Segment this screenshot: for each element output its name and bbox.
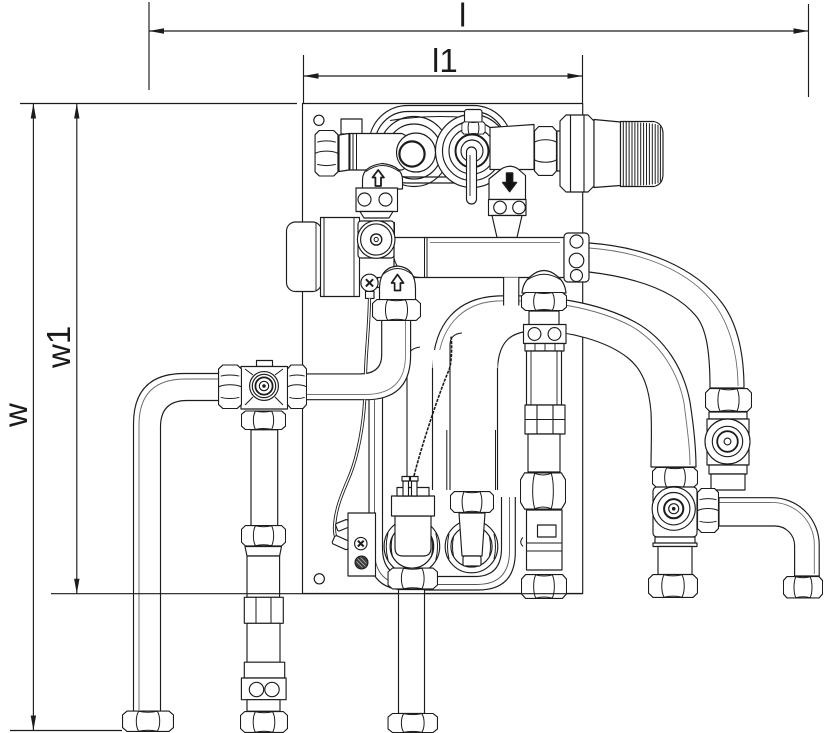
inlet bracket tab xyxy=(341,119,362,134)
bottom hex B xyxy=(240,712,287,733)
inlet cone adapter xyxy=(339,134,349,172)
pipe valve to safety valve xyxy=(490,125,534,170)
ball valve lever xyxy=(467,147,477,204)
center bottom pipe xyxy=(399,590,425,714)
riser bottom hex xyxy=(783,577,822,598)
svg-text:w1: w1 xyxy=(40,326,77,369)
pump to pipe fillet xyxy=(394,258,420,278)
plate screw bottom-left xyxy=(314,574,324,584)
right column barrel xyxy=(527,351,562,405)
dimension l xyxy=(149,0,809,97)
dimension w1 xyxy=(40,104,80,594)
right column dome elbow xyxy=(522,271,566,294)
U loop pipe xyxy=(369,396,515,590)
mid union hex xyxy=(241,525,285,546)
left valve down pipe xyxy=(251,430,278,526)
lower right valve outlet pipe xyxy=(658,547,692,575)
middle wide column xyxy=(407,333,498,490)
left 3way valve rings xyxy=(250,372,279,401)
reducer cone xyxy=(245,547,282,557)
elbow pump to valve xyxy=(307,321,411,400)
right column big hex xyxy=(520,473,565,509)
ball valve bonnet cap xyxy=(465,110,483,124)
block above flange xyxy=(244,662,284,678)
left elbow port rings xyxy=(379,117,449,187)
safety valve union hex xyxy=(535,127,557,176)
plug union hex xyxy=(450,492,493,513)
safety valve knurled knob xyxy=(621,122,664,187)
left elbow mouth xyxy=(397,133,436,172)
inlet cylinder seams xyxy=(350,134,357,171)
right column lower neck xyxy=(528,434,560,472)
top loop housing xyxy=(369,106,512,184)
pipe below union xyxy=(247,623,280,662)
pump mount plate xyxy=(358,221,394,258)
check valve union hex xyxy=(705,389,751,412)
plate screw top-left xyxy=(314,115,324,125)
inlet union hex xyxy=(315,130,338,176)
plug ring xyxy=(445,520,498,573)
lower right valve side port hexes xyxy=(698,488,719,532)
lower right valve flange xyxy=(653,537,697,547)
left pipe bottom hex xyxy=(123,711,174,732)
left 3way valve right hex xyxy=(287,365,306,409)
pump outlet hex xyxy=(372,300,420,321)
pipe A tee to check valve xyxy=(589,243,744,388)
capillary tube upper xyxy=(366,298,370,374)
U bottom union hex xyxy=(388,568,437,589)
lug screw xyxy=(355,537,367,549)
svg-text:l1: l1 xyxy=(432,42,458,79)
elbow side port to riser xyxy=(719,498,819,576)
left 3way valve left hex xyxy=(219,365,242,409)
mounting plate xyxy=(303,104,583,594)
right column drain valve xyxy=(527,510,563,570)
right column coupler xyxy=(525,405,565,434)
pump motor end cap xyxy=(287,222,322,292)
center bottom hex xyxy=(388,713,437,732)
safety valve body xyxy=(560,115,594,192)
lower right ball valve sight xyxy=(652,487,695,530)
flange under down arrow xyxy=(489,200,527,238)
capillary tube lower xyxy=(334,400,364,543)
check valve body xyxy=(707,412,749,490)
w extension overlay xyxy=(10,730,122,732)
neck xyxy=(247,700,280,712)
svg-text:w: w xyxy=(0,403,34,428)
earth symbol disc xyxy=(355,556,368,569)
pump motor body xyxy=(316,218,395,297)
capillary clamp tab xyxy=(335,519,350,531)
main horizontal pipe xyxy=(394,238,564,278)
tee fitting with ports xyxy=(564,233,589,282)
lower right ball valve top hex xyxy=(652,467,697,487)
capillary stub under screw xyxy=(366,291,375,298)
c clip mark xyxy=(521,538,523,547)
right column union hex xyxy=(521,292,566,310)
svg-text:l: l xyxy=(459,0,466,34)
right column flange xyxy=(524,325,567,344)
stub under main pipe xyxy=(504,278,519,306)
right column bottom hex xyxy=(521,575,566,599)
two bolt flange bottom xyxy=(241,678,286,700)
right column thread band xyxy=(525,344,564,352)
lower right ball valve body xyxy=(653,487,697,537)
flow arrow up pentagon xyxy=(363,164,403,190)
check valve sight glass xyxy=(705,419,750,464)
flange under up arrow xyxy=(356,188,398,218)
plug insert xyxy=(459,513,485,566)
left pipe from valve xyxy=(134,374,219,711)
right column neck xyxy=(529,311,559,325)
sensor ring xyxy=(384,519,440,575)
pump outlet pentagon xyxy=(380,266,416,301)
bleed screw xyxy=(361,274,384,291)
inlet pipe into elbow xyxy=(349,134,410,171)
sweep pipe arch to lower right valve xyxy=(433,296,697,467)
lower right valve bottom hex xyxy=(649,575,698,598)
capillary lug xyxy=(332,535,351,550)
left valve lower hex xyxy=(241,411,285,430)
w1 extension overlay xyxy=(51,593,583,595)
safety valve cone xyxy=(594,120,621,188)
dimension w xyxy=(0,104,297,731)
ball valve bonnet hex xyxy=(462,122,486,134)
flow arrow down pentagon xyxy=(489,166,526,199)
ball valve rings xyxy=(436,115,509,188)
earth bracket xyxy=(348,513,376,576)
left 3way valve body xyxy=(241,361,288,410)
sensor body xyxy=(392,477,435,557)
union block xyxy=(244,597,283,623)
pump head circle xyxy=(357,221,395,259)
safety valve spacer xyxy=(557,131,568,171)
pipe to union xyxy=(247,556,280,597)
dimension l1 xyxy=(304,42,583,103)
sensor capillary xyxy=(413,336,452,480)
